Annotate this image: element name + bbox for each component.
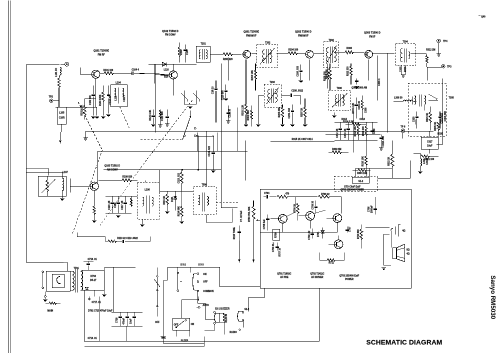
svg-text:RADIO: RADIO (230, 331, 237, 334)
resistor R208 (324, 63, 329, 88)
capacitor C210 (222, 84, 228, 100)
svg-text:TP3: TP3 (447, 66, 452, 68)
resistor R106 (178, 42, 183, 62)
capacitor C703 (273, 242, 281, 257)
transistor Q303 (365, 50, 373, 58)
wire Q102 leads (160, 64, 173, 95)
svg-text:L104: L104 (116, 81, 122, 84)
transistor Q202 (306, 50, 314, 58)
resistor R314b (343, 120, 366, 125)
transistor Q201 (243, 50, 251, 58)
resistor R321 (421, 149, 438, 161)
svg-text:C311 30: C311 30 (359, 100, 361, 109)
svg-text:C111 7: C111 7 (124, 94, 126, 102)
switch S5 common out (197, 292, 199, 303)
transformer T305 (413, 94, 438, 110)
resistor R110 (105, 236, 150, 243)
resistor R202 (242, 80, 248, 126)
svg-text:R710 680: R710 680 (358, 229, 360, 240)
fuse resistor (45, 302, 60, 304)
wire T301 out (334, 51, 345, 53)
wire Q303 out (369, 53, 395, 80)
svg-text:C1R 10: C1R 10 (212, 86, 214, 94)
svg-text:S 5-2: S 5-2 (180, 264, 186, 266)
capacitor C209 (289, 104, 295, 126)
label Q202 (295, 30, 312, 37)
bus AM B+ (97, 150, 247, 152)
capacitor C203 (212, 80, 217, 122)
capacitor C102b (197, 135, 216, 172)
resistor R312 (411, 49, 436, 67)
svg-text:L106: L106 (145, 189, 151, 191)
svg-text:D101: D101 (172, 196, 174, 202)
dashed box power S1 (334, 176, 377, 191)
dashed gang link 1 (78, 102, 102, 150)
svg-text:AF DRIVER: AF DRIVER (311, 276, 324, 279)
svg-text:C703 01+: C703 01+ (273, 242, 275, 253)
transformer T304 (396, 40, 416, 65)
wire det out (206, 208, 237, 222)
transistor Q103 (90, 182, 98, 190)
svg-text:R110 22 C119 .0022: R110 22 C119 .0022 (117, 238, 138, 240)
capacitor C104 (132, 68, 165, 75)
svg-text:FM IF: FM IF (369, 36, 376, 38)
svg-text:R324 1K: R324 1K (426, 112, 429, 121)
svg-text:C313: C313 (360, 119, 366, 121)
transformer T202 (251, 42, 278, 68)
oscillator coil box L107 (38, 172, 68, 197)
dashed gang into L104 (120, 107, 130, 130)
wire Q202 emitter (309, 60, 311, 81)
wire mid drop x245 (245, 140, 247, 180)
label Q701 name (277, 273, 292, 279)
svg-text:C? .02 5uF: C? .02 5uF (241, 210, 243, 222)
capacitor C706 tone (234, 210, 243, 262)
variable cap gang AM (181, 90, 200, 108)
svg-text:Q302 D300 AM: Q302 D300 AM (351, 86, 367, 89)
wire vol wires down arrow1 (238, 255, 240, 262)
svg-text:R204 100: R204 100 (288, 48, 299, 51)
wire AM base line (26, 261, 63, 263)
wire Q201 emitter (245, 60, 247, 81)
svg-text:AUTO: AUTO (203, 304, 210, 307)
capacitor C716 (83, 259, 97, 271)
ground TP4 branch (436, 54, 440, 56)
coil L306 (393, 98, 416, 102)
wire Q702 leads (298, 210, 325, 228)
wire switch top rail (167, 267, 220, 287)
capacitor C707 (346, 226, 352, 232)
transistor Q703a (333, 214, 342, 223)
dashed box T305 (408, 83, 454, 136)
svg-text:T304: T304 (403, 40, 409, 43)
svg-text:Q303 T1500 D: Q303 T1500 D (364, 31, 381, 34)
svg-text:8Ω: 8Ω (407, 249, 410, 251)
electrolytic bank (111, 312, 142, 341)
svg-text:0.0047: 0.0047 (426, 157, 429, 165)
transformer T701 (70, 268, 83, 293)
wire out coupling (365, 227, 389, 229)
svg-text:C306 4: C306 4 (378, 78, 381, 86)
svg-text:D701: D701 (318, 231, 320, 237)
svg-text:S2-2: S2-2 (244, 309, 250, 311)
svg-text:T203: T203 (270, 82, 276, 84)
svg-text:C10R: C10R (59, 117, 65, 119)
svg-text:C718: C718 (117, 317, 119, 323)
wire osc bottom (77, 232, 105, 237)
wire box bottom drop (318, 288, 320, 341)
svg-text:R304 2.2K: R304 2.2K (352, 103, 355, 114)
capacitor C212 (226, 105, 232, 123)
svg-text:FM/AM IF: FM/AM IF (246, 34, 257, 37)
svg-text:4Ω: 4Ω (402, 229, 405, 232)
svg-text:C310 .05: C310 .05 (345, 128, 347, 138)
wire T201 to R201 (210, 53, 223, 55)
transistor Q101 (92, 70, 100, 78)
resistor R115 (164, 191, 170, 213)
svg-text:ON: ON (191, 324, 195, 326)
svg-text:R309 6M: R309 6M (332, 149, 341, 151)
svg-text:C716 .01: C716 .01 (88, 259, 98, 261)
labels under T304 (400, 65, 407, 77)
ground AGC (332, 112, 336, 117)
filter box L103 (57, 107, 66, 143)
wire FM mixer top (148, 63, 196, 65)
svg-text:C717 .01: C717 .01 (92, 302, 102, 304)
cluster caps under R109 (105, 196, 137, 217)
svg-text:R306: R306 (347, 48, 353, 50)
coil L101 (56, 67, 61, 76)
svg-text:T201: T201 (201, 43, 207, 45)
transformer T301 (314, 40, 339, 68)
title sanyo rm5030 (489, 275, 496, 319)
svg-text:10uF: 10uF (131, 318, 133, 324)
wire IF bus verticals (227, 57, 229, 80)
svg-text:C206 .033: C206 .033 (297, 65, 299, 76)
capacitor C705 (264, 214, 270, 230)
wire L106 to T506 (159, 190, 193, 192)
wire sleep net (163, 280, 204, 343)
label Q702 name (310, 272, 324, 279)
dashed gang link 3 (140, 100, 192, 168)
label Q703 name (339, 274, 359, 281)
ground rectifier (102, 290, 106, 296)
transformer T303 (264, 82, 281, 108)
svg-text:R124 3.3K: R124 3.3K (149, 110, 152, 121)
switch S1-1 lever (182, 110, 196, 140)
wire buzzer net (204, 288, 264, 334)
speaker SP1 (393, 244, 410, 262)
resistor R308 (326, 63, 331, 90)
svg-text:TP 6: TP 6 (400, 126, 405, 128)
volume control R750 (249, 200, 260, 262)
coil pack L104 (111, 81, 128, 107)
svg-text:R304 10K: R304 10K (357, 172, 368, 175)
wire bottom bus 2 (84, 344, 204, 347)
switch SLEEP box (173, 318, 195, 330)
svg-text:C713 .01: C713 .01 (88, 338, 98, 340)
title schematic diagram (366, 339, 442, 346)
label Q101 (93, 49, 109, 56)
svg-text:C121 660: C121 660 (162, 111, 164, 122)
wire bus jog (154, 64, 156, 132)
wire L107 top (26, 168, 62, 175)
svg-text:C303 30R: C303 30R (445, 111, 447, 122)
svg-text:COMMON: COMMON (203, 291, 214, 293)
svg-text:C118: C118 (115, 202, 117, 208)
svg-text:Q102 T1502 D: Q102 T1502 D (162, 30, 179, 33)
resistor R205 (279, 104, 285, 126)
svg-text:C708 30: C708 30 (312, 200, 314, 209)
svg-text:C117 .05: C117 .05 (122, 200, 124, 210)
svg-text:C320: C320 (413, 116, 415, 122)
svg-text:R207 1K: R207 1K (302, 107, 304, 116)
wire x353 drop (353, 112, 355, 152)
wire AGC rail (325, 133, 380, 135)
svg-text:R302 56K: R302 56K (248, 110, 250, 121)
svg-text:R750 VOL 50K: R750 VOL 50K (249, 206, 251, 222)
cluster C320 R324 C321 (413, 106, 443, 130)
cluster R313 C310 C312 R318 (334, 122, 377, 140)
test point TP2 (49, 96, 59, 102)
svg-text:C317: C317 (427, 141, 433, 143)
label S5-3 (198, 264, 204, 266)
label Q303 (364, 31, 381, 38)
wire Q101 emitter (95, 78, 99, 118)
svg-text:1000uF: 1000uF (371, 205, 373, 213)
connector S2-2 (238, 311, 244, 321)
wire right bus join (436, 78, 447, 144)
svg-text:R318 100: R318 100 (363, 126, 365, 137)
wire x369 drop (368, 168, 370, 177)
svg-text:FM/AM IF: FM/AM IF (298, 34, 309, 37)
label S2-1 buzzer (215, 308, 230, 310)
dashed switch feed (140, 139, 181, 141)
wire IF out to VOL (221, 63, 225, 208)
svg-text:T303: T303 (329, 40, 335, 42)
diode D101 (172, 191, 177, 210)
resistor R706 (318, 194, 341, 199)
svg-text:R205 33K: R205 33K (279, 107, 281, 118)
svg-text:S2-1 BUZZER: S2-1 BUZZER (215, 308, 230, 310)
svg-text:L101 FO: L101 FO (56, 68, 58, 77)
ground mains (43, 291, 47, 301)
svg-text:MAIN: MAIN (47, 309, 53, 312)
svg-text:C208 .0022: C208 .0022 (291, 90, 303, 92)
svg-text:FM CONV: FM CONV (165, 34, 176, 36)
svg-text:C316 .033: C316 .033 (383, 135, 385, 146)
timer switch contacts (154, 267, 160, 324)
svg-text:Q701 T1602C: Q701 T1602C (277, 273, 292, 275)
svg-text:R106: R106 (181, 49, 183, 55)
ground speaker (381, 265, 391, 269)
capacitor C704 (263, 192, 276, 199)
wire vol wires down arrow2 (252, 255, 254, 262)
frame left edge (8, 0, 11, 353)
switch S5-2 pole (177, 267, 182, 291)
svg-text:Q103 T1502 D: Q103 T1502 D (104, 164, 120, 167)
dashed gang link 2 (72, 150, 102, 234)
svg-text:R202 2.2K: R202 2.2K (242, 105, 244, 116)
svg-text:Q40: Q40 (481, 15, 486, 18)
svg-text:C104 4: C104 4 (132, 68, 140, 71)
svg-text:R101 100: R101 100 (103, 70, 114, 72)
svg-text:L107: L107 (63, 172, 69, 174)
resistor R306 (345, 48, 364, 54)
wire bus drop x197 (196, 132, 198, 151)
svg-text:R203 10K: R203 10K (252, 70, 254, 81)
wire power box feed (355, 168, 392, 176)
svg-text:D702 C715 470uF 10uF: D702 C715 470uF 10uF (88, 309, 113, 312)
AF block box (260, 189, 411, 288)
label TIME (161, 337, 167, 339)
resistor R711 (319, 252, 344, 264)
svg-text:R103 100K: R103 100K (100, 94, 102, 106)
label parts Q102 (164, 69, 170, 78)
cluster R304 C311 (352, 95, 368, 118)
svg-text:L306 30: L306 30 (394, 98, 403, 100)
svg-text:TP4: TP4 (443, 40, 448, 43)
capacitor C316 (379, 134, 385, 150)
svg-text:4Ω: 4Ω (407, 252, 410, 255)
diode D701 (318, 227, 324, 238)
buzzer BZ (214, 311, 228, 324)
svg-text:R102 1.5K: R102 1.5K (81, 105, 83, 116)
svg-text:Q201 T1500E: Q201 T1500E (243, 30, 259, 33)
box R708 bias (273, 229, 280, 240)
svg-text:R310 10K: R310 10K (363, 156, 365, 167)
svg-text:FM RF: FM RF (98, 54, 106, 56)
resistor R112 (178, 170, 183, 191)
svg-text:C209 .033: C209 .033 (289, 107, 291, 118)
svg-text:GTO C6uF ExtF: GTO C6uF ExtF (344, 185, 361, 188)
resistor R304h (352, 169, 370, 175)
label MAIN (47, 309, 53, 312)
diode D101 (154, 62, 166, 83)
label R314 (342, 118, 366, 121)
resistor R311 (348, 63, 353, 84)
svg-text:470uF: 470uF (123, 317, 126, 324)
resistor R109 (98, 176, 137, 181)
svg-text:TIME: TIME (161, 337, 167, 339)
wire Q101 emitter bus (55, 106, 97, 108)
svg-text:R115 TONE: R115 TONE (234, 227, 236, 240)
svg-text:R711: R711 (329, 262, 335, 264)
svg-text:C309: C309 (374, 128, 376, 134)
label S2-2 (244, 309, 250, 311)
resistor R114 (177, 191, 184, 223)
resistor R201 (223, 53, 242, 61)
rectifier D703 (82, 270, 104, 290)
svg-text:T306: T306 (337, 88, 343, 90)
svg-text:C113 .022: C113 .022 (178, 172, 180, 183)
resistor R102b (81, 98, 95, 119)
svg-text:C102 100: C102 100 (90, 95, 92, 106)
cluster under switch (149, 109, 170, 127)
svg-text:L112: L112 (115, 95, 117, 101)
svg-text:R322 1K: R322 1K (388, 156, 390, 165)
coil L102 (60, 172, 64, 200)
resistor R305 (435, 121, 440, 137)
transformer T506 (193, 131, 216, 222)
wire common to buzzer (198, 303, 214, 319)
svg-text:C709 .02: C709 .02 (309, 230, 311, 240)
svg-text:AF PRE: AF PRE (280, 276, 289, 279)
svg-text:R707 10: R707 10 (279, 247, 281, 256)
svg-text:R305 1K: R305 1K (435, 121, 437, 130)
wire mid rail (260, 231, 337, 233)
svg-text:T701: T701 (74, 268, 80, 270)
test point TP6 (400, 126, 405, 138)
resistor R710 (358, 224, 363, 248)
wire R322 bottom (377, 160, 410, 178)
svg-text:S 5-3: S 5-3 (198, 264, 204, 266)
capacitor C206 (297, 64, 303, 82)
svg-text:R123 56: R123 56 (226, 313, 228, 322)
svg-text:C102 .022: C102 .022 (209, 145, 211, 156)
svg-text:C120 .05: C120 .05 (109, 200, 111, 210)
svg-text:D5-1T: D5-1T (90, 280, 97, 282)
label SLEEP (181, 340, 189, 342)
test point TP3 (427, 64, 452, 80)
resistor R203 (252, 63, 257, 90)
resistor R101 (100, 70, 131, 75)
svg-text:OFF: OFF (155, 322, 160, 324)
antenna terminal J1 (60, 62, 68, 66)
svg-text:C308: C308 (365, 107, 367, 113)
resistor R705 (277, 192, 317, 198)
wire Q303 emitter chain (378, 55, 381, 100)
svg-text:SCHEMATIC DIAGRAM: SCHEMATIC DIAGRAM (366, 339, 442, 346)
label Q102 (162, 30, 179, 37)
svg-text:Sanyo RM5030: Sanyo RM5030 (489, 275, 496, 319)
wire Q703 leads (326, 218, 338, 244)
wire antenna feed (26, 64, 59, 262)
wire bus drop x217 (216, 132, 218, 151)
wire x94 drop (94, 290, 99, 341)
wire speaker feed (384, 230, 391, 265)
svg-text:C706: C706 (368, 206, 370, 212)
svg-text:C105: C105 (187, 49, 189, 55)
svg-text:R315 1K C307 C314: R315 1K C307 C314 (292, 138, 314, 141)
svg-text:R312 2M: R312 2M (426, 49, 435, 51)
wire AM AVC line (103, 137, 221, 191)
bus secondary mid (270, 138, 334, 142)
corner mark (478, 15, 486, 18)
svg-text:C212 30: C212 30 (230, 108, 232, 117)
wire box top feeds (295, 197, 341, 214)
svg-text:R321 100: R321 100 (424, 159, 435, 161)
switch S1-2 (352, 177, 369, 183)
svg-text:T202: T202 (265, 42, 271, 44)
wire bus drop x237 (236, 107, 238, 151)
transistor Q102 (169, 71, 177, 79)
resistor R310 (363, 140, 368, 177)
svg-text:S1-2: S1-2 (358, 181, 364, 183)
resistor R309 (328, 149, 348, 154)
svg-text:R308 150: R308 150 (326, 69, 328, 80)
label power box (341, 185, 365, 191)
svg-text:C312 .05: C312 .05 (337, 128, 339, 138)
svg-text:R311 330: R311 330 (348, 66, 350, 76)
svg-text:C704: C704 (264, 192, 270, 195)
label Q302 (351, 86, 367, 89)
wire Q103 emitter (92, 190, 96, 222)
svg-text:B10: B10 (164, 76, 169, 78)
label Q103 (104, 164, 120, 171)
wire Q103 base (70, 178, 90, 192)
svg-text:L310: L310 (424, 158, 426, 164)
